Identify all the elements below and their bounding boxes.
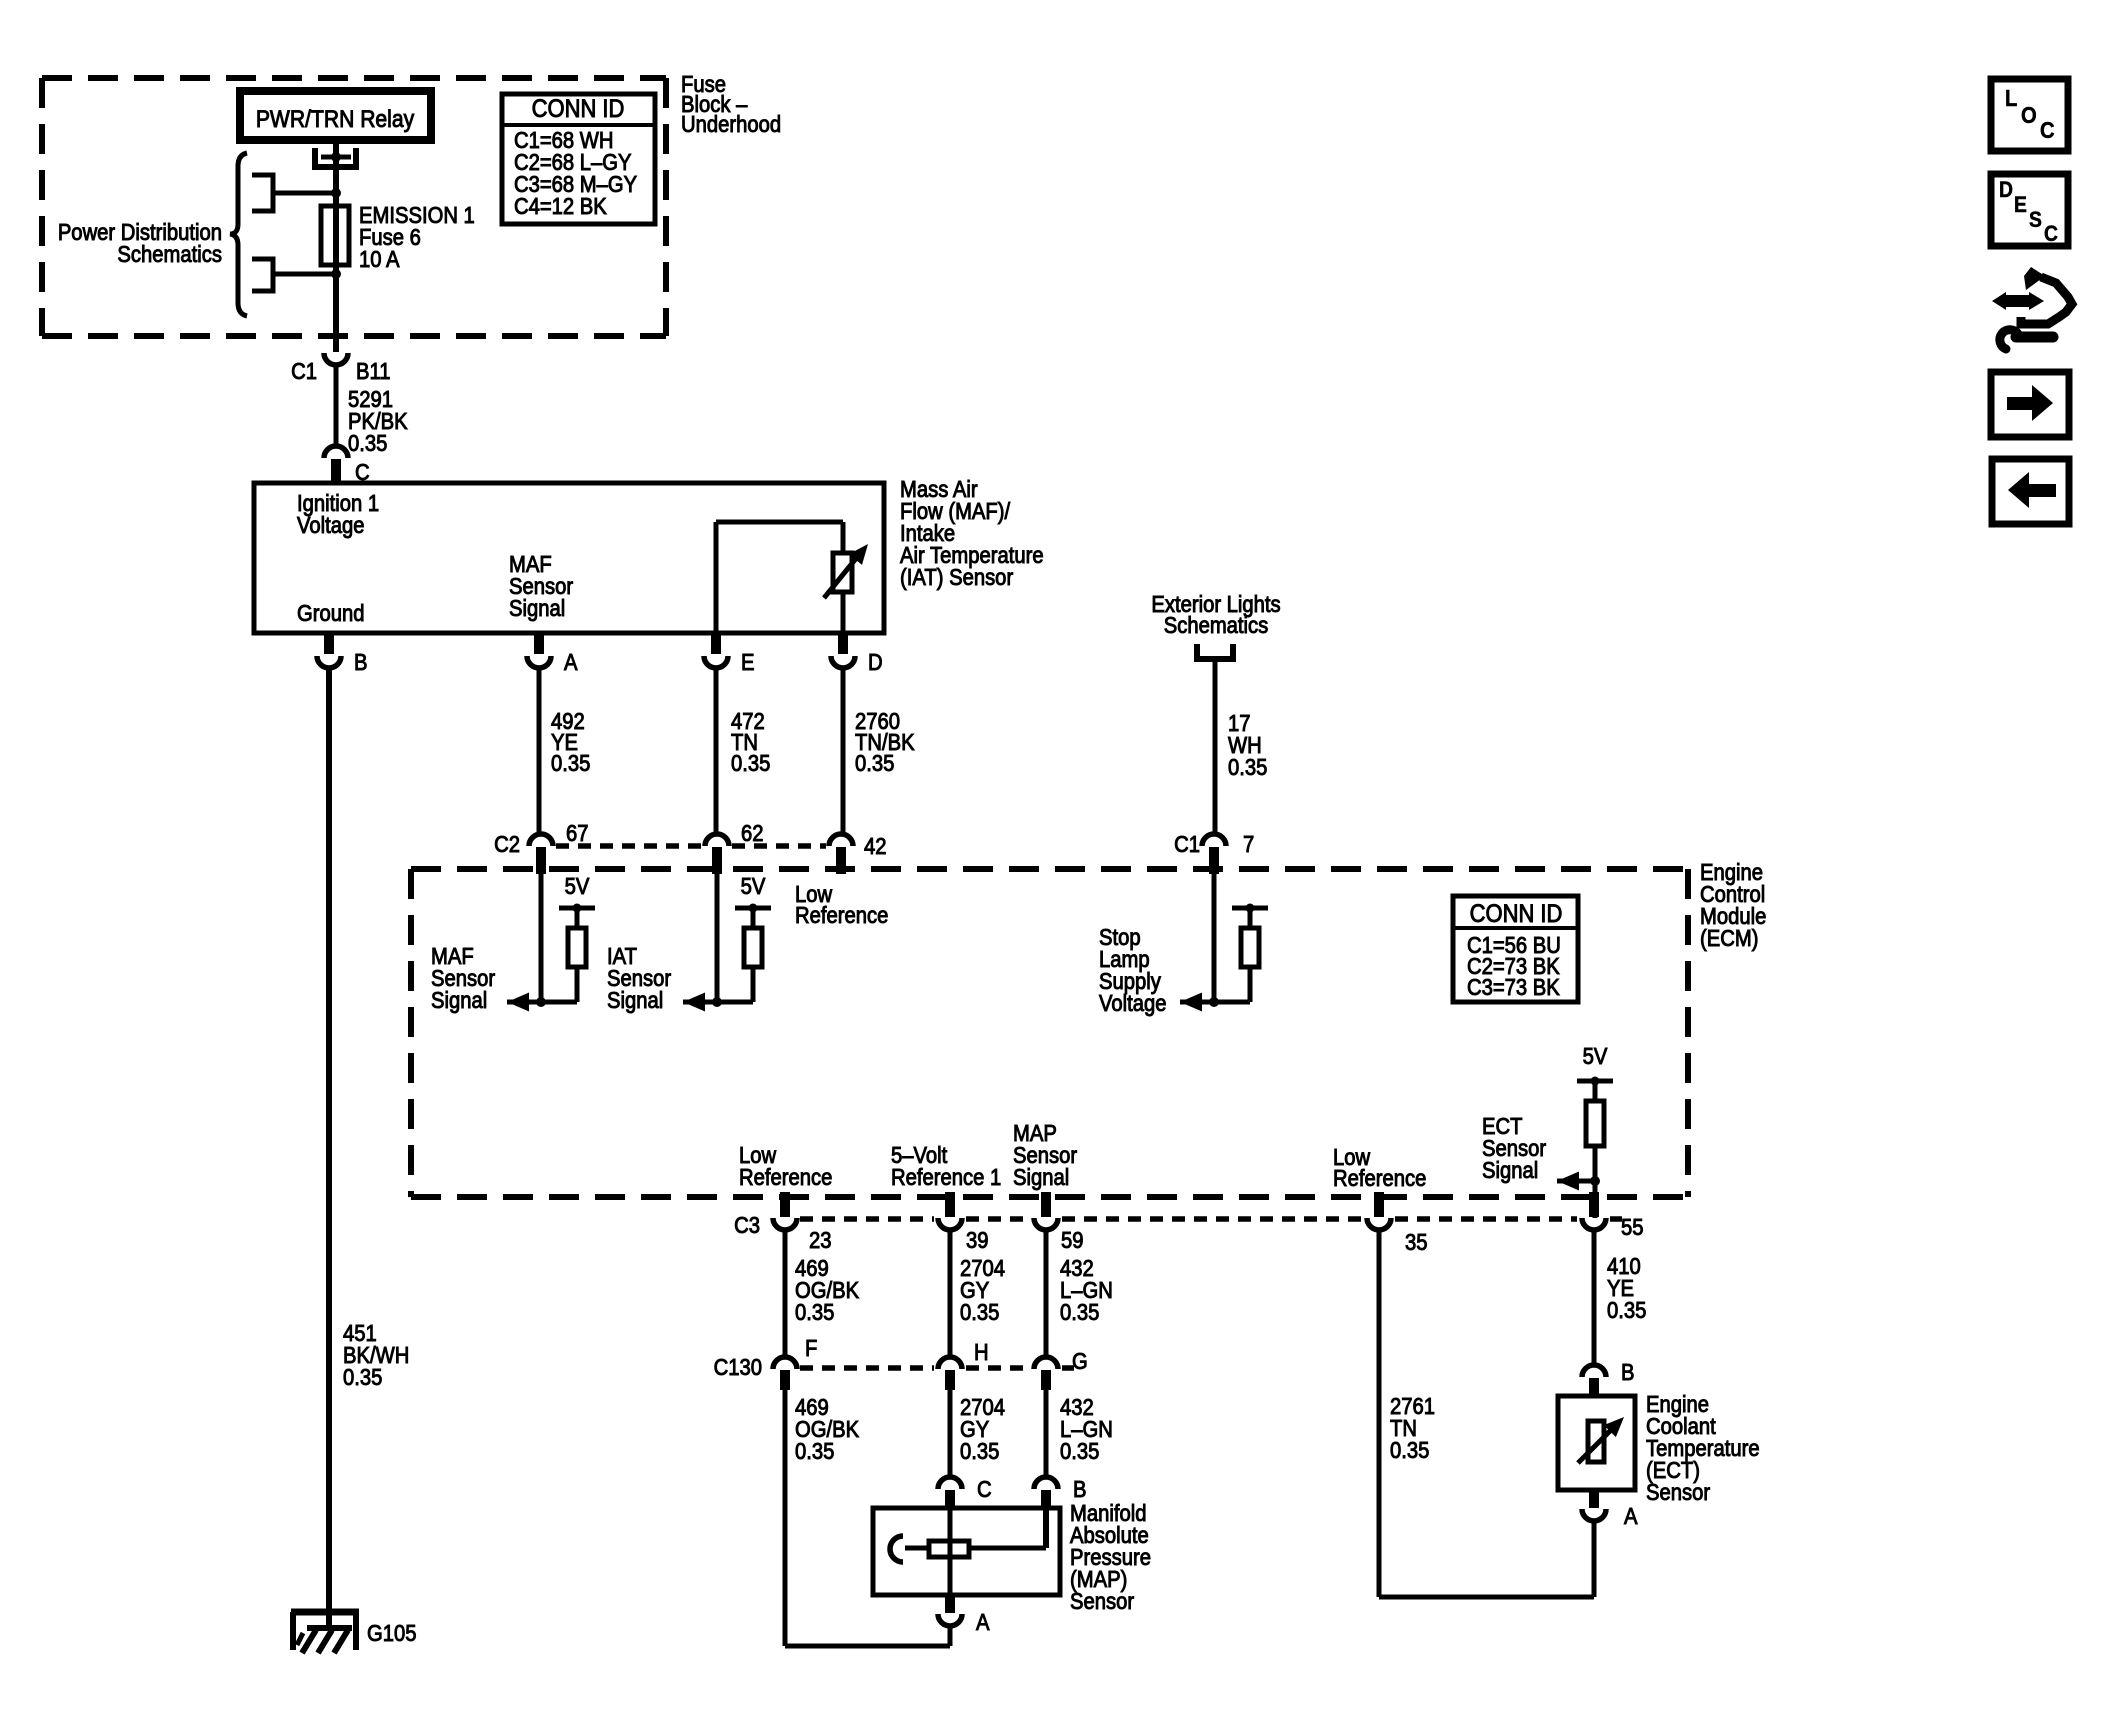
svg-text:E: E	[2014, 193, 2027, 217]
svg-text:0.35: 0.35	[795, 1438, 834, 1465]
svg-text:D: D	[1999, 178, 2013, 202]
svg-text:0.35: 0.35	[1060, 1438, 1099, 1465]
svg-text:C: C	[977, 1476, 992, 1503]
svg-text:B: B	[1621, 1359, 1635, 1386]
svg-text:(IAT) Sensor: (IAT) Sensor	[900, 564, 1013, 591]
svg-text:Sensor: Sensor	[1070, 1588, 1134, 1615]
svg-text:Reference: Reference	[795, 902, 888, 929]
svg-text:0.35: 0.35	[1060, 1299, 1099, 1326]
svg-text:C1: C1	[291, 358, 317, 385]
svg-text:7: 7	[1243, 831, 1254, 858]
svg-text:Schematics: Schematics	[117, 241, 222, 268]
svg-text:C3: C3	[734, 1212, 760, 1239]
svg-text:D: D	[868, 649, 883, 676]
svg-text:A: A	[564, 649, 578, 676]
svg-text:B: B	[354, 649, 368, 676]
svg-text:0.35: 0.35	[348, 430, 387, 457]
svg-text:Signal: Signal	[1013, 1164, 1069, 1191]
svg-text:Voltage: Voltage	[297, 512, 365, 539]
svg-text:0.35: 0.35	[1228, 754, 1267, 781]
svg-text:F: F	[805, 1335, 817, 1362]
svg-text:Signal: Signal	[431, 987, 487, 1014]
svg-text:S: S	[2029, 208, 2042, 232]
svg-text:A: A	[976, 1609, 990, 1636]
svg-text:B11: B11	[356, 358, 391, 385]
svg-text:Reference: Reference	[1333, 1165, 1426, 1192]
svg-text:Signal: Signal	[607, 987, 663, 1014]
svg-text:C4=12 BK: C4=12 BK	[514, 193, 607, 220]
svg-text:C2: C2	[494, 831, 520, 858]
svg-text:(ECM): (ECM)	[1700, 925, 1758, 952]
svg-text:5V: 5V	[741, 873, 766, 900]
svg-text:C: C	[2040, 117, 2055, 144]
svg-text:67: 67	[566, 820, 589, 847]
svg-text:0.35: 0.35	[795, 1299, 834, 1326]
svg-text:PWR/TRN Relay: PWR/TRN Relay	[256, 106, 415, 133]
svg-text:0.35: 0.35	[1390, 1437, 1429, 1464]
svg-text:C1: C1	[1174, 831, 1200, 858]
svg-text:B: B	[1073, 1476, 1087, 1503]
svg-text:0.35: 0.35	[1607, 1297, 1646, 1324]
svg-text:G: G	[1072, 1348, 1088, 1375]
svg-text:E: E	[741, 649, 755, 676]
svg-text:23: 23	[809, 1227, 832, 1254]
svg-text:C130: C130	[714, 1354, 762, 1381]
svg-text:0.35: 0.35	[551, 750, 590, 777]
svg-text:Signal: Signal	[509, 595, 565, 622]
svg-text:55: 55	[1621, 1214, 1644, 1241]
svg-text:Signal: Signal	[1482, 1157, 1538, 1184]
svg-text:Voltage: Voltage	[1099, 990, 1167, 1017]
svg-text:5V: 5V	[1583, 1043, 1608, 1070]
svg-text:0.35: 0.35	[960, 1299, 999, 1326]
svg-text:O: O	[2021, 102, 2037, 129]
svg-text:L: L	[2005, 85, 2017, 112]
svg-text:Sensor: Sensor	[1646, 1479, 1710, 1506]
svg-text:Ground: Ground	[297, 600, 364, 627]
svg-text:C: C	[2044, 222, 2058, 246]
svg-text:C3=73 BK: C3=73 BK	[1467, 974, 1560, 1001]
svg-text:CONN ID: CONN ID	[532, 95, 625, 123]
svg-text:62: 62	[741, 820, 764, 847]
svg-text:39: 39	[966, 1227, 989, 1254]
svg-text:10 A: 10 A	[359, 246, 400, 273]
svg-text:A: A	[1624, 1503, 1638, 1530]
svg-text:0.35: 0.35	[343, 1364, 382, 1391]
svg-text:CONN ID: CONN ID	[1470, 900, 1563, 928]
svg-text:35: 35	[1405, 1229, 1428, 1256]
svg-text:Schematics: Schematics	[1164, 612, 1269, 639]
svg-text:G105: G105	[367, 1620, 417, 1647]
svg-text:Reference 1: Reference 1	[891, 1164, 1001, 1191]
svg-text:H: H	[974, 1339, 989, 1366]
svg-text:0.35: 0.35	[855, 750, 894, 777]
svg-text:0.35: 0.35	[731, 750, 770, 777]
svg-text:59: 59	[1061, 1227, 1084, 1254]
svg-text:5V: 5V	[565, 873, 590, 900]
svg-text:Reference: Reference	[739, 1164, 832, 1191]
svg-text:Underhood: Underhood	[681, 111, 781, 138]
svg-text:0.35: 0.35	[960, 1438, 999, 1465]
svg-text:42: 42	[864, 833, 887, 860]
